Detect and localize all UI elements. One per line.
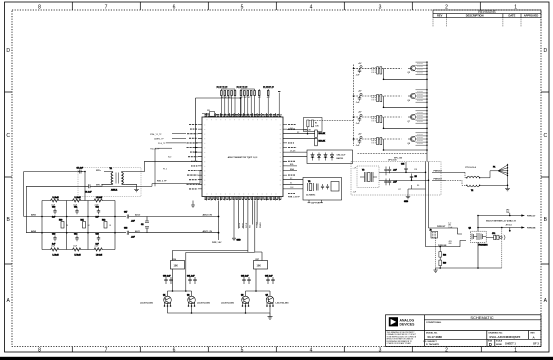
ground GND bottom block <box>268 313 273 319</box>
svg-text:5: 5 <box>241 4 244 10</box>
svg-text:Q6: Q6 <box>408 100 410 102</box>
svg-text:PWR3.3V: PWR3.3V <box>527 216 536 218</box>
svg-text:C25: C25 <box>401 164 404 166</box>
svg-text:GND: GND <box>404 201 409 203</box>
row 4 wire <box>354 139 428 150</box>
svg-text:Q3: Q3 <box>241 295 243 297</box>
dual mosfet Q10 dashed box <box>469 228 489 247</box>
osc bus verticals to lower block <box>426 162 429 247</box>
IC U1 left pin labels <box>187 125 198 189</box>
svg-text:R12: R12 <box>102 220 105 222</box>
svg-text:XTAL_Y1_TP: XTAL_Y1_TP <box>150 133 162 136</box>
ground under IC (mid) <box>232 201 241 242</box>
capacitor C20 between rails <box>141 217 149 233</box>
IC U1 ADUC7060 body <box>202 117 283 197</box>
bottom black bar <box>0 357 553 360</box>
svg-text:SJ2: SJ2 <box>168 157 171 159</box>
svg-text:R4 1.0K: R4 1.0K <box>319 140 326 143</box>
svg-text:DATE: DATE <box>508 13 515 17</box>
svg-text:PWROUT: PWROUT <box>434 178 443 180</box>
row 1 wire <box>354 68 428 79</box>
svg-text:Q5: Q5 <box>408 72 410 74</box>
inner dashed box with crystal Y3 <box>357 166 379 188</box>
svg-text:22pF: 22pF <box>73 204 77 206</box>
capacitor pair C39/C40 <box>163 276 173 285</box>
ladder cap C13 <box>52 234 57 246</box>
svg-text:1: 1 <box>514 4 517 10</box>
ladder cap C15 <box>96 234 101 246</box>
capacitor C6 <box>85 184 92 193</box>
svg-text:REV: REV <box>437 13 443 17</box>
IC U1 top pins <box>207 113 280 117</box>
ladder mid resistor R10 <box>59 220 64 229</box>
svg-text:R2 1.0K: R2 1.0K <box>305 129 312 131</box>
svg-text:REV: REV <box>531 333 536 335</box>
svg-text:22pF: 22pF <box>95 245 99 247</box>
svg-text:22pF: 22pF <box>73 245 77 247</box>
TITLE BLOCK <box>386 315 542 347</box>
TP stubs under crystal box <box>308 200 324 203</box>
svg-text:MOSI: MOSI <box>239 222 241 228</box>
svg-text:3: 3 <box>379 347 382 353</box>
svg-text:PWM0: PWM0 <box>257 221 259 228</box>
svg-text:C11: C11 <box>74 207 77 209</box>
logo ADI <box>389 317 415 326</box>
transformer T1 <box>104 168 125 192</box>
svg-text:D: D <box>6 48 10 54</box>
column ticks bottom <box>72 347 481 353</box>
svg-text:C45 .1uF: C45 .1uF <box>265 275 273 278</box>
svg-text:CR4 2.2uF: CR4 2.2uF <box>337 154 347 157</box>
svg-text:C10: C10 <box>52 207 55 209</box>
svg-text:OTHERS OR FOR ANY OTHER: OTHERS OR FOR ANY OTHER <box>387 342 412 345</box>
left frame loop wire <box>24 172 85 233</box>
row 1 resistor pair <box>377 67 382 74</box>
row 2 power flag <box>360 93 362 96</box>
zone numbers bottom <box>38 347 517 353</box>
resistor box R37 <box>254 259 268 269</box>
diode D4 <box>330 153 333 161</box>
svg-text:TP8: TP8 <box>506 212 509 214</box>
capacitor C5 <box>77 168 84 174</box>
dashed block outline <box>351 162 441 196</box>
svg-text:JP2 3x1: JP2 3x1 <box>506 225 512 227</box>
svg-text:P1.2: P1.2 <box>163 168 167 170</box>
svg-text:T2: T2 <box>471 190 473 192</box>
svg-text:L3 1uH: L3 1uH <box>96 197 103 199</box>
value stack 1 <box>448 223 452 230</box>
REVISION TABLE <box>433 10 541 27</box>
svg-text:C27: C27 <box>398 189 401 191</box>
diode D3 <box>324 153 327 161</box>
ladder cap C12 <box>96 207 101 219</box>
transistor Q4 <box>266 294 274 307</box>
crystal Y1 above IC <box>207 110 215 116</box>
svg-text:8: 8 <box>38 347 41 353</box>
svg-text:C15: C15 <box>96 234 99 236</box>
wires from left labels to IC <box>155 134 186 187</box>
svg-text:24MHZ_TP: 24MHZ_TP <box>154 138 164 140</box>
row 1 transistor Q5 <box>408 65 416 71</box>
svg-text:CTX-16-16.4: CTX-16-16.4 <box>465 166 477 169</box>
resistor R4 <box>287 138 326 146</box>
osc block wires <box>379 162 429 194</box>
svg-text:SCHEMATIC: SCHEMATIC <box>470 315 493 320</box>
ground at T1 <box>125 184 139 192</box>
svg-text:0R0: 0R0 <box>449 243 452 245</box>
transistor Q2 <box>187 295 195 307</box>
wire AIN2 to cap <box>26 185 87 187</box>
svg-text:FG. SUBJECT: FG. SUBJECT <box>424 341 438 343</box>
row 3 resistor pair <box>377 116 382 123</box>
under-IC: horizontal wire AIN+ rail <box>147 216 219 218</box>
ladder mid resistor R12 <box>102 220 107 229</box>
svg-text:Q4: Q4 <box>266 294 268 297</box>
svg-text:L43-8752-48G: L43-8752-48G <box>276 301 289 304</box>
cap C24 <box>384 179 397 186</box>
J2 drop wire (dotted) <box>435 238 437 268</box>
svg-text:L6 1uH: L6 1uH <box>96 255 103 257</box>
svg-text:Y3: Y3 <box>362 170 364 172</box>
svg-text:C2: C2 <box>141 224 143 226</box>
svg-text:BAV199: BAV199 <box>337 157 344 160</box>
crystal Y2 <box>308 181 319 191</box>
row 2 transistor Q6 <box>408 93 416 99</box>
svg-text:R39: R39 <box>443 263 446 265</box>
output arrow 1 PWR3.3V <box>478 213 525 217</box>
svg-text:8: 8 <box>38 4 41 10</box>
connector J2 <box>430 230 438 239</box>
svg-text:2: 2 <box>445 4 448 10</box>
ladder inductor L3 <box>94 197 103 202</box>
svg-text:PWM1: PWM1 <box>260 221 262 228</box>
ladder inductor L6 <box>94 248 103 257</box>
svg-text:22pF: 22pF <box>51 245 55 247</box>
junction <box>240 97 242 99</box>
small print <box>387 331 417 345</box>
svg-text:R. TACASTE: R. TACASTE <box>426 343 440 346</box>
verticals <box>42 201 115 250</box>
ladder cap C11 <box>74 207 79 215</box>
svg-text:PWROUT: PWROUT <box>437 226 446 228</box>
net stubs right of IC <box>287 166 297 171</box>
right bus vertical <box>426 62 428 162</box>
resistor cluster RN1 above IC <box>221 91 236 96</box>
svg-text:FDC6420C: FDC6420C <box>479 244 489 247</box>
svg-text:Q1: Q1 <box>163 295 165 297</box>
series cap C17 on AIN2 out <box>115 228 147 239</box>
svg-text:C39 .1uF: C39 .1uF <box>163 276 171 278</box>
transistor Q1 <box>163 295 171 307</box>
svg-text:R1: R1 <box>315 122 317 124</box>
svg-text:2: 2 <box>445 347 448 353</box>
svg-text:Y2: Y2 <box>308 181 310 183</box>
svg-text:Q7: Q7 <box>408 121 410 123</box>
svg-text:22pF: 22pF <box>51 204 55 206</box>
svg-text:ADUC7060BSTZ32 TQFP 1,2,3: ADUC7060BSTZ32 TQFP 1,2,3 <box>228 156 258 159</box>
svg-text:1: 1 <box>514 347 517 353</box>
svg-text:L43-8752-48G: L43-8752-48G <box>197 301 210 304</box>
extra labels left of IC <box>150 133 171 171</box>
svg-text:CAP PORT: CAP PORT <box>311 202 321 205</box>
svg-text:APPROVED: APPROVED <box>524 13 539 17</box>
crystal Y3 <box>360 170 377 183</box>
svg-text:ADC1: ADC1 <box>135 230 140 233</box>
svg-text:L5 1uH: L5 1uH <box>75 255 82 257</box>
svg-text:C: C <box>6 133 10 139</box>
svg-text:L1 1uH: L1 1uH <box>53 197 60 199</box>
T2 wires <box>445 171 508 186</box>
svg-text:R6: R6 <box>417 185 419 187</box>
svg-text:4K7: 4K7 <box>258 97 261 99</box>
row 1 capacitor C31 <box>358 68 361 73</box>
row 3 wire <box>354 117 428 128</box>
IC U1 bottom pin labels <box>205 198 282 200</box>
svg-text:4K7: 4K7 <box>267 97 270 99</box>
vertical net name labels under IC <box>239 221 262 228</box>
transistor Q3 <box>241 295 249 307</box>
row 4 capacitor C34 <box>358 139 361 144</box>
svg-text:C6 .1uF: C6 .1uF <box>85 192 92 194</box>
wires box to bases <box>168 252 271 296</box>
svg-text:03-17-0888: 03-17-0888 <box>428 335 443 339</box>
ladder junction dots <box>41 216 116 234</box>
net label PWR_3.3V (left, above IC) <box>217 87 228 90</box>
svg-text:PWRUSB: PWRUSB <box>438 245 447 247</box>
resistor R3 <box>287 130 326 138</box>
svg-text:AIN1: AIN1 <box>31 214 37 217</box>
svg-text:C18: C18 <box>124 228 127 230</box>
resistor R20 above IC <box>258 91 260 96</box>
resistor cluster value labels <box>221 97 270 99</box>
feed wires from IC right <box>287 65 354 147</box>
svg-text:PWROUT: PWROUT <box>434 170 443 172</box>
IC U1 right pin labels <box>288 125 297 194</box>
dashed box around transformer <box>78 168 141 197</box>
capacitor pair C45/C46 <box>265 275 275 285</box>
ground at P1 <box>505 189 510 191</box>
ladder inductor L5 <box>73 248 82 257</box>
jumper JP1 <box>486 233 505 240</box>
svg-text:7: 7 <box>105 4 108 10</box>
svg-text:R38: R38 <box>443 255 446 257</box>
svg-text:C13: C13 <box>52 234 55 236</box>
svg-text:P1: P1 <box>493 167 495 169</box>
row ticks left <box>5 92 13 264</box>
svg-text:C: C <box>543 133 547 139</box>
row 2 wire <box>354 96 428 107</box>
svg-text:CONDITIONAL: CONDITIONAL <box>426 321 442 324</box>
under-IC: horizontal wire AIN- rail <box>147 232 219 234</box>
zone letters left <box>6 48 10 304</box>
ground under IC (left) <box>191 201 195 208</box>
IC U1 right pins <box>283 125 287 189</box>
value stack 2 <box>449 241 452 245</box>
ladder inductor L2 <box>73 197 82 202</box>
ladder cap C10 <box>52 207 57 219</box>
row 4 power flag <box>360 136 362 139</box>
svg-text:32.768KHZ: 32.768KHZ <box>306 194 316 196</box>
svg-text:PWR_3.3V: PWR_3.3V <box>237 88 248 90</box>
svg-text:Q2: Q2 <box>469 228 471 230</box>
series cap C16 on AIN1 out <box>115 212 147 223</box>
svg-text:6: 6 <box>173 347 176 353</box>
jack P1 fan <box>493 164 508 189</box>
svg-text:7: 7 <box>105 347 108 353</box>
svg-text:ADC1_IN: ADC1_IN <box>203 230 213 233</box>
zone numbers top <box>38 4 517 10</box>
diode D2 <box>317 153 320 161</box>
mosfet drain risers <box>477 216 479 269</box>
IC U1 top pin labels <box>205 115 282 117</box>
ground bottom right <box>433 268 437 272</box>
wire bus above IC left <box>196 98 241 161</box>
row 2 pin stubs <box>416 90 428 102</box>
emitter rail <box>168 306 271 313</box>
row 3 pin stubs <box>416 111 428 123</box>
ladder inductor L1 <box>51 197 60 202</box>
svg-text:D: D <box>543 48 547 54</box>
wires from top pins to resistors <box>221 89 268 117</box>
svg-text:L43-8752-48G: L43-8752-48G <box>221 301 234 304</box>
svg-text:ADC0_IN: ADC0_IN <box>203 214 213 217</box>
resistor box R36 <box>171 259 185 269</box>
svg-text:JP1: JP1 <box>492 233 495 235</box>
ladder inductor L4 <box>51 248 60 257</box>
ladder cap C14 <box>74 233 79 242</box>
svg-text:PWRUSB: PWRUSB <box>527 228 536 230</box>
row 4 resistor pair <box>377 138 382 145</box>
row 3 power flag <box>360 114 362 117</box>
svg-text:C5 .1uF: C5 .1uF <box>77 168 84 170</box>
svg-text:C28: C28 <box>414 169 417 171</box>
svg-text:10K: 10K <box>174 265 179 268</box>
svg-text:R10: R10 <box>59 220 62 222</box>
svg-text:PWR_3.3V: PWR_3.3V <box>217 88 228 90</box>
capacitor pair C41/C42 <box>187 275 197 285</box>
bottom row dashed wire <box>358 153 428 155</box>
IC U1 left pins <box>198 125 202 189</box>
row 2 resistor pair <box>377 95 382 102</box>
svg-text:SELECT BETWEEN +5V (USB) 3.3V: SELECT BETWEEN +5V (USB) 3.3V <box>486 221 517 223</box>
sub ic U4 <box>331 182 339 192</box>
diode D1 <box>311 153 314 161</box>
svg-text:GND: GND <box>237 240 242 242</box>
svg-text:3: 3 <box>379 4 382 10</box>
cap C26 <box>410 174 417 181</box>
resistor stack R38 <box>439 247 446 268</box>
svg-text:6: 6 <box>173 4 176 10</box>
svg-text:OPO-100: OPO-100 <box>388 160 397 162</box>
svg-text:L4 1uH: L4 1uH <box>53 254 60 257</box>
wire T1 to right <box>92 161 203 186</box>
wire PWR to row1 riser <box>202 86 280 114</box>
svg-text:J2: J2 <box>430 230 432 232</box>
zone letters right <box>543 48 547 304</box>
svg-text:DESCRIPTION: DESCRIPTION <box>466 13 484 17</box>
vertical wire from IC pin to rails <box>218 201 220 241</box>
svg-text:4: 4 <box>310 4 313 10</box>
row ticks right <box>541 92 549 264</box>
resistor cluster RN2 above IC <box>240 91 255 96</box>
svg-text:R11: R11 <box>81 220 84 222</box>
row 1 pin stubs <box>416 62 428 74</box>
ground at osc <box>404 194 410 203</box>
column ticks top <box>72 2 480 10</box>
svg-text:10K: 10K <box>257 265 262 268</box>
net label PWR_3.3V (right, above IC) <box>263 87 274 90</box>
row 4 transistor Q8 <box>408 136 416 142</box>
svg-text:OF 3: OF 3 <box>533 341 539 345</box>
crystal box <box>287 178 342 201</box>
svg-text:22pF: 22pF <box>95 204 99 206</box>
svg-text:R5: R5 <box>415 176 417 178</box>
svg-text:AIN2: AIN2 <box>31 230 37 233</box>
wire ladder top feed <box>84 172 86 201</box>
test point label RXD_2_TP <box>94 171 202 187</box>
extra labels right of IC <box>290 128 299 189</box>
svg-text:1.0uF: 1.0uF <box>448 227 452 229</box>
svg-text:ADC0: ADC0 <box>135 214 140 217</box>
svg-text:SCALE: SCALE <box>496 340 503 343</box>
svg-text:P0.4_TP: P0.4_TP <box>158 143 166 145</box>
svg-text:L2 1uH: L2 1uH <box>75 197 82 199</box>
svg-text:C17: C17 <box>124 212 127 214</box>
bus turn wires <box>426 228 467 247</box>
svg-text:RXD_2_TP: RXD_2_TP <box>157 180 167 182</box>
jumper select vertical (dotted) <box>501 228 503 269</box>
resistor R21 above IC <box>267 91 269 96</box>
svg-text:4: 4 <box>310 347 313 353</box>
bottom rail <box>436 267 502 269</box>
output arrow 2 PWRUSB <box>478 226 525 230</box>
svg-text:R3 1.0K: R3 1.0K <box>319 133 326 135</box>
svg-text:NONE: NONE <box>496 344 502 346</box>
ladder value labels <box>51 204 112 247</box>
rails <box>42 201 115 250</box>
svg-text:EVAL-ADUCM360QSPZ: EVAL-ADUCM360QSPZ <box>490 335 521 339</box>
row 3 capacitor C33 <box>358 117 361 122</box>
crystal caps C21 C22 <box>321 184 329 190</box>
svg-text:L43-8752-48G: L43-8752-48G <box>140 301 153 304</box>
svg-text:Q8: Q8 <box>408 143 410 145</box>
svg-text:SHEET 1: SHEET 1 <box>505 341 516 345</box>
svg-text:C41 .1uF: C41 .1uF <box>187 275 195 278</box>
svg-text:D: D <box>489 342 492 347</box>
svg-text:PWR_1.8V: PWR_1.8V <box>212 242 222 244</box>
diode box D1-D4 <box>287 150 353 164</box>
IC U1 bottom pins <box>207 197 280 201</box>
svg-text:C12: C12 <box>96 207 99 209</box>
row 4 pin stubs <box>416 133 428 145</box>
cap C23 <box>384 167 397 176</box>
svg-text:+.uF: +.uF <box>353 168 356 170</box>
svg-text:C43 .1uF: C43 .1uF <box>241 275 249 278</box>
cap C25 <box>401 164 408 173</box>
resistor box R1 R2 <box>304 118 323 132</box>
svg-text:4K7 4K7 4K7: 4K7 4K7 4K7 <box>241 97 251 99</box>
svg-text:DEVICES: DEVICES <box>400 322 416 326</box>
svg-text:.1uF: .1uF <box>353 192 356 194</box>
wires IC bottom to lower block <box>173 201 258 261</box>
svg-text:A251-1: A251-1 <box>111 189 117 192</box>
svg-text:5: 5 <box>241 347 244 353</box>
capacitor pair C43/C44 <box>241 275 251 285</box>
row 1 power flag <box>360 66 362 69</box>
row 3 transistor Q7 <box>408 114 416 120</box>
ladder mid resistor R11 <box>81 220 86 229</box>
net label PWR_3.3V (mid, above IC) <box>237 87 248 90</box>
